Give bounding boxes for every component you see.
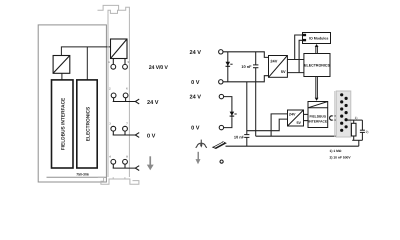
strip housing bottom foot profile	[98, 177, 139, 184]
earth contact symbol (arc with arrow)	[196, 140, 207, 148]
svg-text:24 V: 24 V	[147, 100, 159, 106]
module outline	[38, 25, 106, 182]
svg-text:ELECTRONICS: ELECTRONICS	[85, 106, 91, 141]
ground arrow (field earth)	[196, 152, 201, 164]
capacitor C1 10nF (24V rail decoupling)	[253, 52, 258, 136]
svg-text:2) 10 nF 500V: 2) 10 nF 500V	[330, 156, 352, 160]
strip side rails	[108, 14, 129, 177]
svg-text:IO Modules: IO Modules	[309, 37, 328, 41]
terminal 24V system	[219, 50, 223, 54]
Fieldbus interface box	[308, 102, 328, 128]
svg-text:INTERFACE: INTERFACE	[308, 120, 327, 124]
svg-text:2): 2)	[366, 130, 369, 134]
wire 0V to electronics	[287, 72, 304, 74]
wire loop 0V to fieldbus dc/dc	[247, 119, 288, 131]
svg-text:0 V: 0 V	[191, 80, 200, 86]
wire RC bottom	[352, 139, 362, 141]
resistor R 1MOhm	[351, 120, 356, 140]
wire 5V to fieldbus interface	[304, 113, 309, 115]
fieldbus interface block	[52, 80, 74, 168]
diode D2 (field protection)	[230, 107, 237, 117]
svg-text:1) 1 MΩ: 1) 1 MΩ	[330, 149, 342, 153]
fieldbus connector (D-sub)	[335, 91, 351, 137]
svg-text:24 V: 24 V	[189, 95, 201, 101]
carrier rail symbol	[212, 141, 227, 149]
ground arrow (module earth)	[147, 156, 154, 170]
wire connector shell to RC network	[347, 119, 362, 121]
IO Modules box	[303, 33, 331, 44]
wire 0V field	[224, 117, 232, 127]
electronics block	[77, 80, 97, 168]
dc/dc converter (strip, feeds terminals 1/5)	[111, 39, 128, 59]
svg-text:0 V: 0 V	[191, 126, 200, 132]
svg-text:5V: 5V	[281, 69, 286, 74]
strip housing top profile	[98, 5, 130, 13]
svg-text:1): 1)	[355, 116, 358, 120]
wire 0V descender to earth	[246, 82, 248, 135]
capacitor C2 10nF (0V to earth)	[244, 135, 249, 147]
data arrow electronics-fieldbus interface	[316, 77, 318, 99]
terminal row 1 (24V/0V input)	[111, 59, 128, 70]
data arrow electronics-IO modules	[316, 47, 318, 54]
wire 24V field	[224, 97, 232, 107]
dc/dc converter 24V/5V (fieldbus)	[288, 110, 304, 126]
wire tap to IO modules (0V)	[299, 40, 302, 72]
wire RC to earth bus	[358, 140, 360, 146]
dc/dc converter (module internal)	[53, 56, 70, 74]
wire 24V rail	[223, 52, 269, 58]
earth bus	[226, 145, 359, 147]
wire 24V return rail	[256, 133, 343, 136]
svg-text:24V: 24V	[289, 112, 296, 116]
svg-text:5V: 5V	[297, 121, 302, 125]
wire 5V to electronics	[287, 59, 304, 61]
wire 0V to fieldbus interface	[304, 120, 309, 122]
svg-text:24 V: 24 V	[189, 50, 201, 56]
IO module supply pins	[303, 34, 307, 36]
svg-text:FIELDBUS: FIELDBUS	[310, 115, 327, 119]
wire loop 24V to fieldbus dc/dc	[271, 114, 287, 136]
Electronics box	[304, 54, 330, 77]
connector pins column a	[340, 93, 343, 132]
diode D1 (input protection)	[226, 52, 233, 82]
terminal 24V field	[219, 94, 223, 98]
svg-text:24 V/0 V: 24 V/0 V	[149, 65, 169, 71]
capacitor C3 10nF/500V	[360, 120, 365, 140]
svg-text:0 V: 0 V	[147, 133, 156, 139]
wire internal 24V bus	[61, 47, 110, 80]
coupling symbol (connector interface)	[330, 116, 338, 120]
svg-text:10 nF: 10 nF	[241, 64, 252, 69]
terminal 0V field	[219, 125, 223, 129]
svg-text:750-306: 750-306	[76, 173, 89, 177]
terminal 0V system	[219, 80, 223, 84]
terminal earth	[220, 160, 223, 163]
wire 0V rail	[223, 76, 269, 82]
wire tap to IO modules (5V)	[295, 35, 303, 60]
svg-text:ELECTRONICS: ELECTRONICS	[304, 63, 330, 67]
connector pins column b	[345, 97, 348, 129]
svg-text:FIELDBUS INTERFACE: FIELDBUS INTERFACE	[61, 97, 67, 150]
svg-text:24V: 24V	[270, 59, 277, 64]
svg-text:10 nF: 10 nF	[234, 135, 245, 140]
dc/dc converter 24V/5V (system)	[269, 56, 288, 78]
